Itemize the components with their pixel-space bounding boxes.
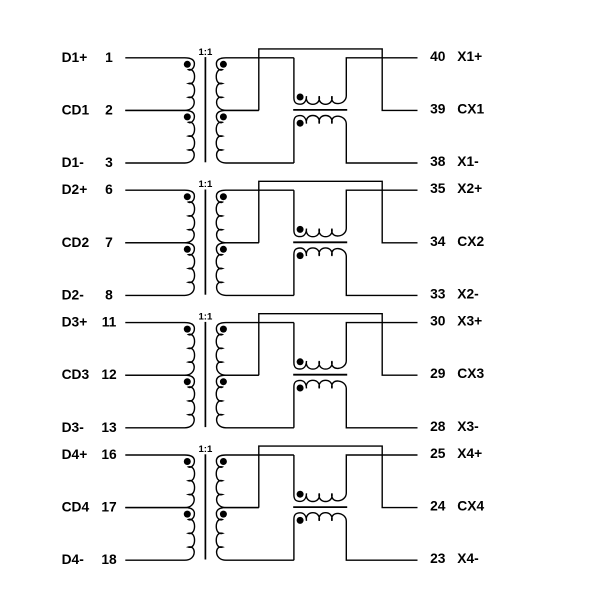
svg-text:D4+: D4+ xyxy=(62,447,88,462)
transformer T1 channel 1 xyxy=(62,47,485,170)
primary winding T3 (pins 11-12-13) xyxy=(125,323,194,376)
svg-text:D4-: D4- xyxy=(62,552,85,567)
transformer T2 channel 2 xyxy=(62,179,485,302)
svg-text:6: 6 xyxy=(105,182,113,197)
choke core L1 xyxy=(293,109,347,111)
wire center-tap jog to CX2 pin 34 xyxy=(259,181,418,242)
svg-text:CD1: CD1 xyxy=(62,102,90,117)
polarity dots T4/L4 xyxy=(184,458,304,524)
svg-text:16: 16 xyxy=(101,447,117,462)
polarity dots T2/L2 xyxy=(184,193,304,259)
choke core L2 xyxy=(293,241,347,243)
common-mode choke L2 bottom winding xyxy=(294,248,418,296)
transformer core T3 xyxy=(204,322,206,427)
primary winding T2 (pins 6-7-8) xyxy=(125,190,194,243)
wire center-tap jog to CX4 pin 24 xyxy=(259,446,418,508)
svg-text:34: 34 xyxy=(430,234,446,249)
transformer core T2 xyxy=(204,190,206,295)
svg-text:30: 30 xyxy=(430,314,446,329)
svg-text:CX4: CX4 xyxy=(457,499,484,514)
common-mode choke L2 top winding xyxy=(294,190,418,237)
primary winding T1 (pins 1-2-3) xyxy=(125,58,194,111)
svg-text:12: 12 xyxy=(101,367,117,382)
svg-text:X4-: X4- xyxy=(457,551,479,566)
common-mode choke L3 top winding xyxy=(294,323,418,370)
wire center-tap jog to CX3 pin 29 xyxy=(259,314,418,376)
secondary winding T4 xyxy=(216,455,294,560)
svg-text:11: 11 xyxy=(102,315,117,330)
svg-text:28: 28 xyxy=(430,419,446,434)
svg-text:23: 23 xyxy=(430,551,446,566)
svg-text:1:1: 1:1 xyxy=(198,312,213,323)
transformer T4 channel 4 xyxy=(62,444,485,567)
svg-text:38: 38 xyxy=(430,154,446,169)
primary winding T4 (pins 16-17-18) xyxy=(125,455,194,508)
svg-text:CD2: CD2 xyxy=(62,235,90,250)
svg-text:39: 39 xyxy=(430,101,446,116)
svg-text:D3+: D3+ xyxy=(62,315,88,330)
secondary winding T2 xyxy=(216,190,294,295)
svg-text:CD4: CD4 xyxy=(62,500,90,515)
svg-text:18: 18 xyxy=(101,552,117,567)
svg-text:1: 1 xyxy=(105,50,113,65)
svg-text:D1+: D1+ xyxy=(62,50,88,65)
svg-text:13: 13 xyxy=(101,420,117,435)
polarity dots T1/L1 xyxy=(184,61,304,127)
transformer core T4 xyxy=(204,454,206,559)
choke core L3 xyxy=(293,374,347,376)
svg-text:CX1: CX1 xyxy=(457,101,484,116)
svg-text:D3-: D3- xyxy=(62,420,85,435)
secondary winding T3 xyxy=(216,323,294,428)
common-mode choke L3 bottom winding xyxy=(294,380,418,427)
svg-text:24: 24 xyxy=(430,499,446,514)
common-mode choke L1 bottom winding xyxy=(294,116,418,164)
wire center-tap jog to CX1 pin 39 xyxy=(259,49,418,110)
svg-text:CX3: CX3 xyxy=(457,366,484,381)
svg-text:17: 17 xyxy=(101,500,117,515)
svg-text:7: 7 xyxy=(105,235,113,250)
svg-text:X3-: X3- xyxy=(457,419,479,434)
svg-text:3: 3 xyxy=(105,155,113,170)
svg-text:2: 2 xyxy=(105,102,113,117)
svg-text:X3+: X3+ xyxy=(457,314,482,329)
polarity dots T3/L3 xyxy=(184,326,304,392)
common-mode choke L1 top winding xyxy=(294,58,418,105)
svg-text:X2-: X2- xyxy=(457,286,479,301)
svg-text:1:1: 1:1 xyxy=(198,47,213,58)
svg-text:X4+: X4+ xyxy=(457,446,482,461)
svg-text:X1+: X1+ xyxy=(457,49,482,64)
svg-text:33: 33 xyxy=(430,286,446,301)
svg-text:D1-: D1- xyxy=(62,155,85,170)
choke core L4 xyxy=(293,506,347,508)
svg-text:CD3: CD3 xyxy=(62,367,90,382)
svg-text:8: 8 xyxy=(105,287,113,302)
secondary winding T1 xyxy=(216,58,294,163)
transformer T3 channel 3 xyxy=(62,312,485,435)
svg-text:X1-: X1- xyxy=(457,154,479,169)
svg-text:1:1: 1:1 xyxy=(198,444,213,455)
svg-text:29: 29 xyxy=(430,366,446,381)
svg-text:CX2: CX2 xyxy=(457,234,484,249)
svg-text:40: 40 xyxy=(430,49,446,64)
transformer core T1 xyxy=(204,57,206,162)
svg-text:X2+: X2+ xyxy=(457,181,482,196)
svg-text:1:1: 1:1 xyxy=(198,179,213,190)
svg-text:D2-: D2- xyxy=(62,287,85,302)
svg-text:35: 35 xyxy=(430,181,446,196)
common-mode choke L4 bottom winding xyxy=(294,513,418,561)
svg-text:25: 25 xyxy=(430,446,446,461)
common-mode choke L4 top winding xyxy=(294,455,418,502)
svg-text:D2+: D2+ xyxy=(62,182,88,197)
